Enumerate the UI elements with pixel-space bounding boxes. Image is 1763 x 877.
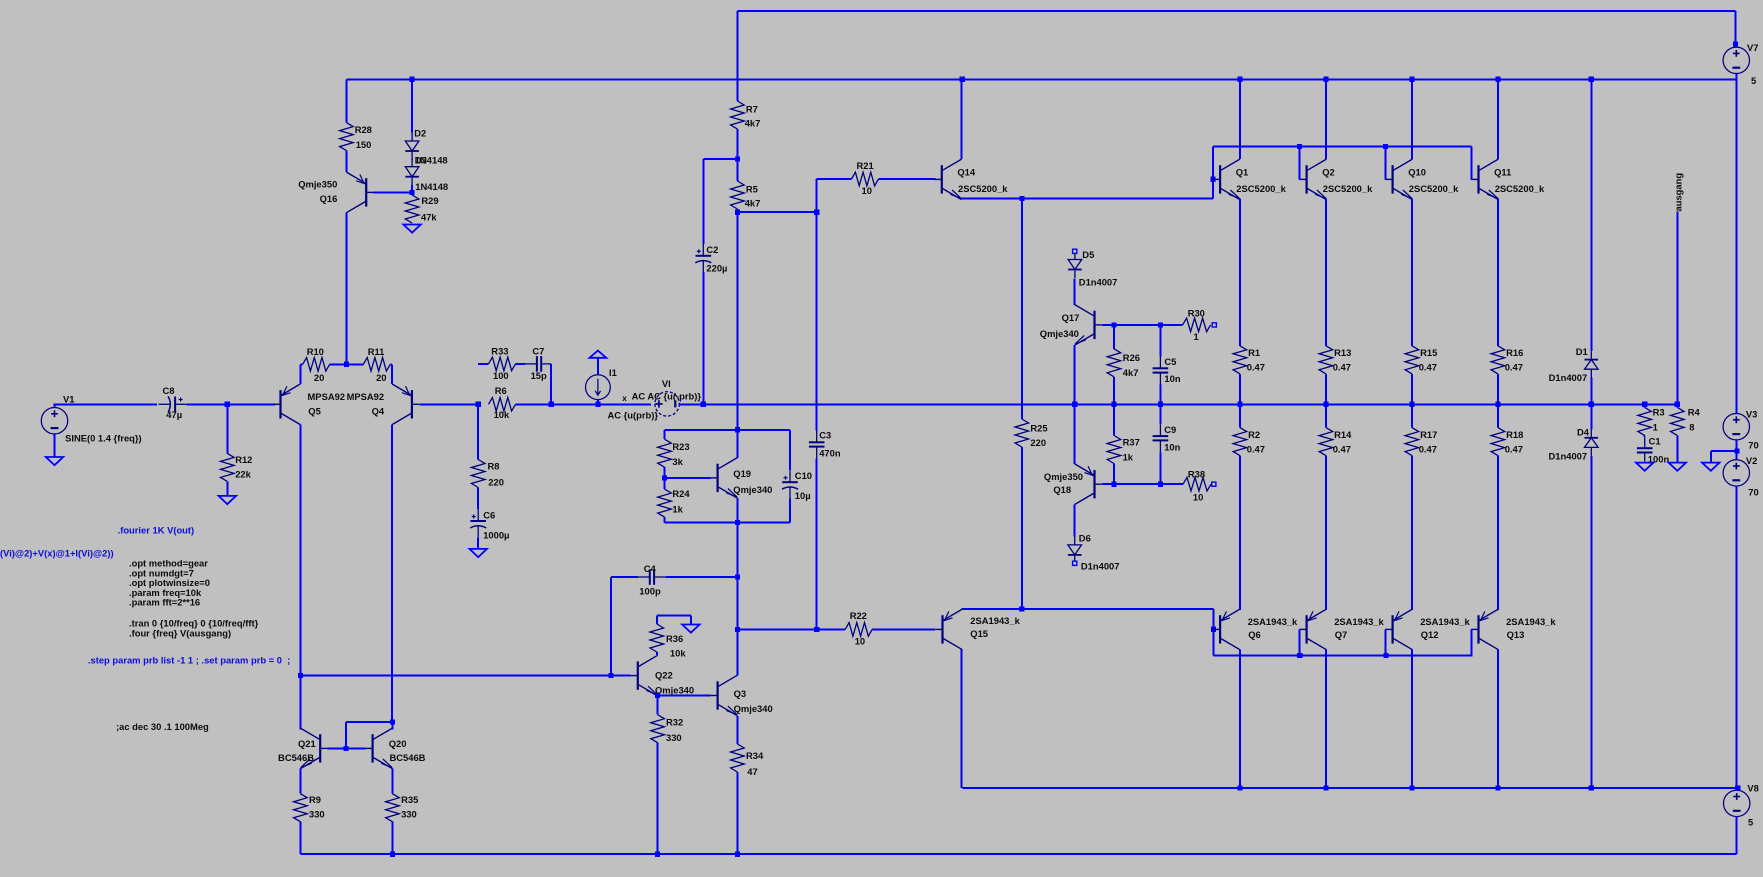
svg-text:R8: R8 (488, 461, 500, 472)
svg-text:R25: R25 (1030, 423, 1047, 434)
svg-text:D1n4007: D1n4007 (1549, 372, 1588, 383)
junction (1323, 785, 1328, 790)
svg-text:Qmje340: Qmje340 (655, 685, 694, 696)
junction (735, 852, 740, 857)
wire R14 to Q7 emitter (1325, 456, 1327, 610)
svg-text:BC546B: BC546B (278, 752, 314, 763)
svg-text:0.47: 0.47 (1505, 362, 1523, 373)
resistor R8 (471, 460, 485, 488)
wire Q4 collector down (391, 424, 393, 722)
svg-text:R37: R37 (1123, 436, 1140, 447)
svg-text:Q14: Q14 (957, 167, 976, 178)
junction (1211, 627, 1216, 632)
transistor Q5 (MPSA92 PNP) (279, 390, 281, 418)
svg-text:15p: 15p (531, 370, 547, 381)
wire D5 terminal (1073, 249, 1077, 253)
capacitor C3 470n (816, 430, 818, 442)
svg-text:MPSA92: MPSA92 (347, 391, 385, 402)
wire Q17 base line (1102, 324, 1183, 326)
svg-text:Q6: Q6 (1248, 629, 1261, 640)
transistor Q10 (2SC5200_k NPN) (1391, 165, 1393, 193)
svg-text:2SA1943_k: 2SA1943_k (970, 615, 1020, 626)
wire C4 left leg down (610, 577, 612, 676)
svg-text:4k7: 4k7 (745, 198, 761, 209)
svg-text:47: 47 (747, 766, 757, 777)
svg-text:R24: R24 (672, 488, 690, 499)
svg-text:2SA1943_k: 2SA1943_k (1420, 616, 1470, 627)
main vertical rail x=737 (736, 11, 738, 101)
svg-text:R21: R21 (857, 160, 874, 171)
transistor Q2 (2SC5200_k NPN) (1305, 165, 1307, 193)
wire (516, 363, 525, 365)
svg-text:D1n4007: D1n4007 (1079, 276, 1118, 287)
PNP base rail (1214, 655, 1473, 657)
svg-text:10: 10 (855, 636, 865, 647)
svg-text:AC {u(prb)}: AC {u(prb)} (608, 410, 659, 421)
main mid (output) rail (703, 403, 1677, 405)
resistor R30 1 (1183, 318, 1211, 332)
svg-text:Q12: Q12 (1421, 629, 1439, 640)
wire (789, 499, 791, 523)
ground at R36 (682, 625, 699, 633)
wire (390, 363, 392, 365)
wire (300, 363, 302, 365)
wire Q21 emitter down (299, 769, 301, 794)
transistor Q6 (2SA1943_k PNP) (1219, 615, 1221, 643)
wire R2 to Q6 emitter (1239, 456, 1241, 610)
svg-text:10k: 10k (670, 648, 686, 659)
svg-text:D2: D2 (414, 127, 426, 138)
svg-text:.four {freq} V(ausgang): .four {freq} V(ausgang) (129, 627, 231, 638)
transistor Q19 (Qmje340 NPN) (716, 464, 718, 492)
wire right edge V7- to V3+ (1735, 79, 1737, 413)
svg-text:Q1: Q1 (1236, 167, 1249, 178)
wire Q3 collector node to R22 (737, 628, 816, 630)
svg-text:2SA1943_k: 2SA1943_k (1334, 616, 1384, 627)
voltage source V8 (1724, 790, 1750, 816)
svg-text:D6: D6 (1079, 533, 1091, 544)
wire (702, 272, 704, 404)
svg-text:Q21: Q21 (298, 738, 316, 749)
junction (1383, 653, 1388, 658)
wire base drop for Q10 (1385, 146, 1387, 179)
wire (679, 403, 737, 405)
wire input line (54, 403, 158, 405)
Vbe multiplier bottom wire (665, 522, 791, 524)
wire (1411, 374, 1413, 405)
svg-text:C3: C3 (819, 430, 831, 441)
svg-text:5: 5 (1751, 75, 1756, 86)
svg-text:R5: R5 (746, 183, 758, 194)
junction (735, 156, 740, 161)
svg-text:Q18: Q18 (1053, 484, 1071, 495)
svg-text:1k: 1k (672, 504, 683, 515)
wire Q3 collector (736, 629, 738, 675)
junction (814, 627, 819, 632)
svg-text:Qmje340: Qmje340 (733, 484, 772, 495)
junction (1158, 402, 1163, 407)
svg-text:C5: C5 (1164, 356, 1176, 367)
wire PNP base drop (1213, 609, 1215, 656)
wire corner up to R21 (816, 179, 818, 212)
svg-text:10k: 10k (494, 409, 510, 420)
svg-text:R15: R15 (1420, 347, 1437, 358)
wire I1 bottom (597, 400, 599, 405)
svg-text:22k: 22k (235, 468, 251, 479)
wire Q12 base stub (1385, 629, 1387, 655)
svg-text:D5: D5 (1082, 249, 1094, 260)
svg-text:MPSA92: MPSA92 (308, 391, 346, 402)
svg-text:Qmje340: Qmje340 (734, 703, 773, 714)
wire (345, 151, 347, 172)
junction (1495, 402, 1500, 407)
svg-text:330: 330 (666, 732, 682, 743)
svg-text:.param fft=2**16: .param fft=2**16 (129, 597, 200, 608)
wire Q7 base stub (1299, 629, 1301, 655)
wire V1 minus down (54, 434, 56, 457)
transistor Q12 (2SA1943_k PNP) (1391, 615, 1393, 643)
wire down from Q14 emitter node (1021, 199, 1023, 405)
junction (655, 693, 660, 698)
resistor R3 1 (1644, 404, 1646, 407)
wire Q2 collector (1325, 79, 1327, 159)
wire Q18 base line (1102, 483, 1183, 485)
resistor R36 10k (656, 616, 658, 624)
capacitor C10 10u polarized (789, 430, 791, 470)
transistor Q20 (BC546B NPN) (372, 734, 374, 762)
wire (817, 628, 846, 630)
resistor R15 0.47 (1405, 346, 1419, 374)
svg-text:Q3: Q3 (734, 688, 747, 699)
wire Q15 emitter line (962, 608, 1214, 610)
resistor R9 330 (294, 794, 308, 822)
svg-text:VI: VI (662, 378, 671, 389)
wire I1 top (597, 358, 599, 375)
wire Q5 collector line to Q22 base (300, 675, 630, 677)
svg-text:10n: 10n (1164, 442, 1180, 453)
voltage source VI (two overlapped AC sources) (655, 392, 679, 416)
wire R18 to Q13 emitter (1497, 456, 1499, 610)
ground under V1 (46, 457, 63, 465)
svg-text:10µ: 10µ (795, 490, 811, 501)
junction (1237, 402, 1242, 407)
svg-text:I1: I1 (609, 367, 617, 378)
diode D3 1N4148 (label overlaps) (411, 158, 413, 167)
wire (516, 403, 652, 405)
junction (662, 475, 667, 480)
svg-text:4k7: 4k7 (745, 118, 761, 129)
resistor R38 10 (1183, 477, 1211, 491)
svg-text:2SC5200_k: 2SC5200_k (1495, 183, 1545, 194)
svg-text:1: 1 (1653, 422, 1658, 433)
wire base drop for Q2 (1299, 146, 1301, 179)
junction (410, 77, 415, 82)
wire D2 anode (411, 79, 413, 132)
wire (226, 481, 228, 496)
resistor R16 0.47 (1491, 346, 1505, 374)
wire (345, 79, 347, 122)
capacitor C5 10n (1159, 325, 1161, 356)
capacitor C4 100p (611, 576, 638, 578)
wire R17 to Q12 emitter (1411, 456, 1413, 610)
wire NPN driver rail riser (1212, 146, 1214, 198)
resistor R29 (405, 195, 419, 223)
svg-text:150: 150 (356, 139, 372, 150)
wire (477, 488, 479, 510)
wire Q3 emitter down (736, 716, 738, 744)
junction (1734, 449, 1739, 454)
node V7 top (1733, 41, 1738, 46)
wire x737 down section (736, 523, 738, 675)
current source I1 (586, 375, 611, 400)
svg-text:C4: C4 (644, 563, 657, 574)
svg-text:1k: 1k (1123, 452, 1134, 463)
wire Q4 emitter up (391, 364, 393, 384)
svg-text:R7: R7 (746, 103, 758, 114)
wire (664, 467, 666, 489)
svg-text:0.47: 0.47 (1419, 444, 1437, 455)
wire base jog up (345, 722, 347, 749)
wire Q6 collector down (1239, 650, 1241, 788)
transistor Q17 (Qmje340 NPN) (1093, 311, 1095, 339)
resistor R18 0.47 (1497, 404, 1499, 427)
svg-text:Q19: Q19 (733, 468, 751, 479)
wire Q19 emitter (736, 498, 738, 522)
junction (1158, 322, 1163, 327)
wire C2 branch top (703, 158, 737, 160)
svg-text:R28: R28 (355, 124, 372, 135)
junction (1409, 77, 1414, 82)
ground under C1 (1636, 463, 1653, 471)
svg-text:C1: C1 (1649, 436, 1661, 447)
junction (1409, 402, 1414, 407)
junction (608, 673, 613, 678)
svg-text:1N4148: 1N4148 (415, 181, 448, 192)
junction (1211, 177, 1216, 182)
svg-text:2SC5200_k: 2SC5200_k (958, 183, 1008, 194)
wire Q17 emitter down (1074, 345, 1076, 404)
wire (1497, 374, 1499, 405)
transistor Q3 (Qmje340 NPN) (716, 681, 718, 709)
wire (1325, 374, 1327, 405)
svg-text:Q4: Q4 (372, 405, 385, 416)
net label ausgang wire (1676, 212, 1678, 405)
svg-text:R11: R11 (368, 346, 385, 357)
junction (1735, 785, 1740, 790)
svg-text:4k7: 4k7 (1123, 367, 1139, 378)
svg-text:V3: V3 (1746, 409, 1757, 420)
resistor R7 4k7 (731, 101, 745, 129)
wire (330, 363, 364, 365)
svg-text:0.47: 0.47 (1247, 362, 1265, 373)
wire shared base (328, 747, 366, 749)
svg-text:Q13: Q13 (1507, 629, 1525, 640)
svg-text:Qmje350: Qmje350 (298, 179, 337, 190)
svg-text:0.47: 0.47 (1419, 362, 1437, 373)
wire Q16 collector down (345, 213, 347, 365)
svg-text:0.47: 0.47 (1505, 444, 1523, 455)
wire V1 plus up (54, 403, 56, 407)
junction (1019, 196, 1024, 201)
svg-text:.fourier 1K V(out): .fourier 1K V(out) (118, 525, 195, 536)
svg-text:R23: R23 (672, 441, 689, 452)
wire (816, 459, 818, 630)
junction (1495, 785, 1500, 790)
junction (1323, 77, 1328, 82)
svg-text:0.47: 0.47 (1333, 444, 1351, 455)
wire Q2 emitter to R13 (1325, 199, 1327, 346)
svg-text:BC546B: BC546B (390, 752, 426, 763)
svg-text:220: 220 (1030, 437, 1046, 448)
input voltage source V1 (41, 408, 67, 434)
wire (666, 576, 737, 578)
svg-text:R18: R18 (1506, 429, 1523, 440)
transistor Q11 (2SC5200_k NPN) (1477, 165, 1479, 193)
wire (477, 537, 479, 549)
resistor R1 0.47 (1233, 346, 1247, 374)
wire R12 top (226, 404, 228, 453)
resistor R24 1k (658, 489, 672, 517)
wire R25 down to Q15 emitter line (1021, 447, 1023, 609)
junction (549, 402, 554, 407)
svg-text:R12: R12 (235, 454, 252, 465)
svg-text:Qmje340: Qmje340 (1040, 328, 1079, 339)
wire R36 bottom to Q22 collector (656, 652, 658, 655)
svg-text:Q11: Q11 (1494, 167, 1511, 178)
svg-text:70: 70 (1748, 487, 1758, 498)
transistor Q18 (Qmje350 PNP) (1093, 470, 1095, 498)
svg-text:R32: R32 (666, 717, 683, 728)
transistor Q15 (2SA1943_k PNP) (941, 615, 943, 643)
svg-text:R10: R10 (307, 346, 324, 357)
svg-text:Q5: Q5 (308, 405, 321, 416)
svg-text:2SC5200_k: 2SC5200_k (1323, 183, 1373, 194)
wire Q14 collector (961, 79, 963, 159)
junction (1589, 77, 1594, 82)
svg-text:220µ: 220µ (706, 263, 727, 274)
svg-text:R4: R4 (1688, 406, 1701, 417)
svg-text:V2: V2 (1746, 455, 1757, 466)
junction (814, 210, 819, 215)
svg-text:100: 100 (493, 370, 509, 381)
svg-text:20: 20 (376, 372, 386, 383)
resistor R5 4k7 (731, 181, 745, 209)
svg-text:R17: R17 (1420, 429, 1437, 440)
diode D4 D1n4007 (1590, 429, 1592, 438)
svg-text:R3: R3 (1653, 406, 1665, 417)
svg-text:C8: C8 (163, 385, 175, 396)
svg-text:R30: R30 (1188, 308, 1205, 319)
svg-text:R13: R13 (1334, 347, 1351, 358)
junction at Q5 collector (298, 673, 303, 678)
transistor Q13 (2SA1943_k PNP) (1477, 615, 1479, 643)
junction (1297, 653, 1302, 658)
svg-text:Q2: Q2 (1322, 167, 1335, 178)
wire V2 minus down (1735, 486, 1737, 788)
wire (664, 430, 666, 439)
junction (1297, 144, 1302, 149)
wire (664, 517, 666, 523)
svg-text:0.47: 0.47 (1247, 444, 1265, 455)
resistor R26 4k7 (1113, 325, 1115, 349)
svg-text:R34: R34 (746, 750, 764, 761)
svg-text:R1: R1 (1248, 347, 1260, 358)
transistor Q4 (MPSA92 PNP) (411, 390, 413, 418)
resistor R11 (363, 358, 390, 372)
wire Q19 base (665, 477, 711, 479)
svg-text:x: x (622, 394, 627, 403)
wire (736, 129, 738, 181)
junction (1675, 402, 1680, 407)
wire Q18 collector down (1074, 505, 1076, 537)
wire Q20 emitter down (391, 769, 393, 794)
junction (1237, 77, 1242, 82)
wire Q19 collector (736, 430, 738, 458)
transistor Q21 (BC546B NPN) (319, 734, 321, 762)
wire R36 top jog to ground (657, 615, 691, 617)
svg-text:D1: D1 (1576, 346, 1588, 357)
resistor R13 0.47 (1319, 346, 1333, 374)
svg-text:Q17: Q17 (1062, 312, 1080, 323)
svg-text:R33: R33 (491, 346, 508, 357)
svg-text:R9: R9 (309, 794, 321, 805)
wire Q1 collector (1239, 79, 1241, 159)
voltage source V2 (1723, 460, 1749, 486)
junction (390, 719, 395, 724)
capacitor C1 100n (1644, 437, 1646, 448)
wire C3 branch (816, 212, 818, 430)
junction (1383, 144, 1388, 149)
svg-text:Q15: Q15 (970, 628, 988, 639)
resistor R23 3k (658, 439, 672, 467)
wire Q12 collector down (1411, 650, 1413, 788)
junction (1323, 402, 1328, 407)
NPN base rail (1213, 145, 1471, 147)
wire Q4 base to node (420, 403, 480, 405)
svg-text:ausgang: ausgang (1673, 173, 1684, 212)
svg-text:R6: R6 (495, 385, 507, 396)
svg-text:C2: C2 (706, 244, 718, 255)
junction (1409, 785, 1414, 790)
svg-text:R16: R16 (1506, 347, 1523, 358)
wire Q13 collector down (1497, 650, 1499, 788)
svg-text:C7: C7 (532, 346, 544, 357)
svg-text:20: 20 (314, 372, 324, 383)
wire Q7 collector down (1325, 650, 1327, 788)
capacitor C7 15p (525, 363, 537, 365)
svg-text:R29: R29 (421, 195, 438, 206)
svg-text:8: 8 (1689, 422, 1694, 433)
resistor R33 (dangling left) (478, 363, 488, 365)
svg-text:330: 330 (401, 809, 417, 820)
bottom rail (300, 853, 1736, 855)
svg-text:R35: R35 (401, 794, 418, 805)
svg-text:10n: 10n (1164, 373, 1180, 384)
wire (1735, 11, 1737, 47)
Vbe multiplier top wire (665, 429, 791, 431)
junction (701, 402, 706, 407)
svg-text:0.47: 0.47 (1333, 362, 1351, 373)
negative supply rail (962, 787, 1738, 789)
wire Q5 collector down (299, 424, 301, 676)
resistor R14 0.47 (1325, 404, 1327, 427)
capacitor C2 220u polarized (702, 244, 704, 256)
svg-text:D1n4007: D1n4007 (1081, 561, 1120, 572)
wire (299, 822, 301, 855)
svg-text:10: 10 (1193, 492, 1203, 503)
wire R21 to Q14 base (879, 178, 936, 180)
wire (1239, 374, 1241, 405)
